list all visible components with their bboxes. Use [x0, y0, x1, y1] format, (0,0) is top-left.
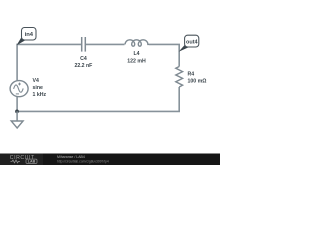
svg-text:R4: R4 — [188, 71, 195, 77]
svg-text:122 mH: 122 mH — [127, 59, 146, 65]
svg-text:22.2 nF: 22.2 nF — [74, 63, 92, 69]
svg-text:1 kHz: 1 kHz — [33, 92, 47, 98]
wire: in4 corner to C4, and down to V4 — [17, 44, 81, 80]
svg-text:out4: out4 — [186, 39, 199, 45]
ground — [11, 111, 23, 128]
inductor L4 — [125, 40, 149, 46]
resistor R4 — [176, 67, 183, 88]
footer bar — [0, 154, 220, 166]
wire: L4 to out4 corner, down to R4 — [149, 44, 179, 66]
wire: R4 bottom and bottom rail to ground — [17, 87, 179, 111]
svg-text:Miharanse / LAB4: Miharanse / LAB4 — [57, 155, 85, 159]
logo LAB badge — [26, 159, 37, 163]
junction dot — [15, 110, 19, 114]
wire top: C4 right plate to L4 — [86, 43, 125, 45]
svg-text:sine: sine — [33, 85, 43, 91]
svg-text:100 mΩ: 100 mΩ — [188, 78, 207, 84]
voltage source V4 — [10, 81, 28, 97]
svg-text:LAB: LAB — [28, 160, 36, 164]
svg-text:V4: V4 — [33, 78, 39, 84]
wire left vertical: V4 bottom to bottom rail — [16, 96, 18, 111]
node flag in4 — [17, 28, 36, 46]
svg-text:http://circuitlab.com/c/g8uv39: http://circuitlab.com/c/g8uv3997/lp4 — [57, 159, 109, 163]
logo zigzag — [11, 160, 21, 163]
node flag out4 — [179, 35, 199, 52]
svg-text:in4: in4 — [25, 32, 34, 38]
capacitor C4 — [82, 37, 86, 52]
svg-text:L4: L4 — [133, 51, 139, 57]
svg-text:C4: C4 — [80, 56, 87, 62]
